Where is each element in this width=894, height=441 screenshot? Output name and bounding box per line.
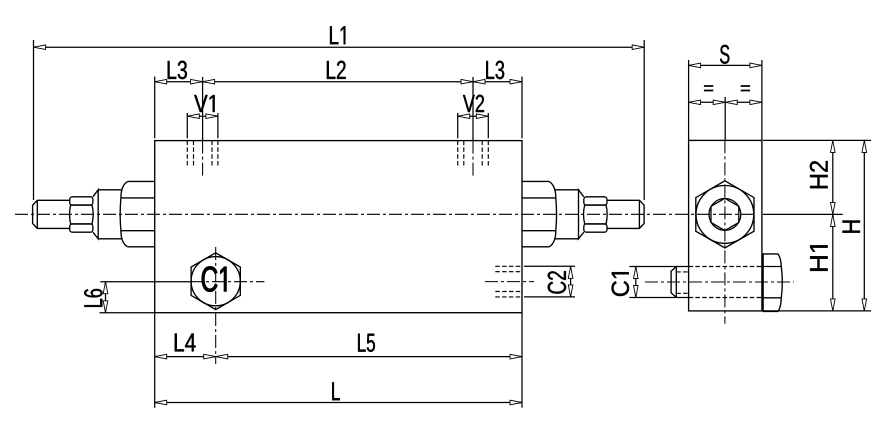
right stem xyxy=(607,200,644,228)
arrow L4 right xyxy=(204,354,216,359)
arrow L3a left xyxy=(155,79,167,84)
arrow V2 right xyxy=(476,114,488,119)
dimension S line xyxy=(689,64,762,66)
side view C1 plug head xyxy=(671,267,676,298)
arrow H2 up xyxy=(831,140,836,152)
label L3 right xyxy=(486,61,504,79)
dimension C1 line xyxy=(635,267,637,298)
dimension H/H2/H1 extension lines xyxy=(763,140,871,311)
arrow eq2 right xyxy=(750,100,762,105)
arrow L1 right xyxy=(632,45,644,50)
side view C1 horizontal centerline xyxy=(645,281,794,283)
label equal left xyxy=(704,86,713,91)
arrow S left xyxy=(689,63,701,68)
arrow C2 down xyxy=(568,285,573,297)
label C1 port marking xyxy=(202,267,226,292)
port C1 horizontal centerline xyxy=(100,281,264,283)
label L xyxy=(332,382,339,400)
arrow L2 right xyxy=(461,79,473,84)
dimension L3/L2 extension lines at block corners xyxy=(155,77,522,139)
port C1 circle xyxy=(191,257,240,306)
arrow H2 down xyxy=(831,202,836,214)
arrow eq1 right xyxy=(713,100,725,105)
arrow H up xyxy=(862,140,867,152)
side view nut thread circle xyxy=(709,199,741,231)
arrow L3b right xyxy=(510,79,522,84)
label H1 xyxy=(810,245,828,271)
dimension L3 right line xyxy=(473,81,522,83)
port V1 hidden hole lines xyxy=(187,141,218,168)
dimension equal-equal line xyxy=(689,101,762,103)
label L6 xyxy=(84,289,102,307)
left cartridge stem xyxy=(33,200,70,228)
dimension C2 extension lines xyxy=(524,266,575,297)
dimension L5 line xyxy=(216,356,522,358)
port C2 centerline xyxy=(485,281,534,283)
port C2 hidden lines xyxy=(495,266,522,297)
arrow L5 left xyxy=(216,354,228,359)
main horizontal centerline front view xyxy=(15,213,756,215)
port V2 axis line xyxy=(472,77,474,141)
arrow C2 up xyxy=(568,266,573,278)
right cylinder section xyxy=(554,190,578,239)
arrow L3b left xyxy=(473,79,485,84)
arrow L2 left xyxy=(203,79,215,84)
port V2 hidden hole lines xyxy=(458,141,489,168)
arrow V2 left xyxy=(458,114,470,119)
arrow L6 up xyxy=(103,282,108,294)
dimension S extension lines xyxy=(689,60,762,140)
right large hex xyxy=(522,181,549,246)
label V2 xyxy=(463,95,484,112)
arrow C1 down xyxy=(634,286,639,298)
left large hex xyxy=(120,181,155,246)
label H xyxy=(843,221,861,233)
arrow L5 right xyxy=(510,354,522,359)
right flange washer xyxy=(579,190,584,239)
arrow L1 left xyxy=(34,45,46,50)
arrow eq2 left xyxy=(725,100,737,105)
label V1 xyxy=(194,95,214,112)
dimension H1 line xyxy=(832,214,834,311)
dimension L1 line xyxy=(34,46,645,48)
dimension L4 line xyxy=(155,356,216,358)
label C1 dimension xyxy=(612,272,629,296)
port V1 extension lines xyxy=(187,113,218,138)
block bottom edge left extension for L6 xyxy=(100,312,155,314)
side view C1 plug top and bottom lines xyxy=(629,267,688,298)
port C1 vertical centerline xyxy=(215,247,217,364)
side view nut inner hex socket xyxy=(711,198,739,230)
arrow L left xyxy=(155,400,167,405)
dimension C2 line xyxy=(570,266,572,297)
label C2 xyxy=(548,271,566,293)
arrow H down xyxy=(862,299,867,311)
port V2 centerline into block xyxy=(472,141,474,177)
port V1 axis line xyxy=(202,77,204,141)
side view C1 plug thread hidden lines xyxy=(676,272,688,293)
port V2 extension lines xyxy=(458,113,489,138)
arrow V1 left xyxy=(187,114,199,119)
label L5 xyxy=(358,334,375,352)
side view C2 plug head xyxy=(763,254,783,312)
dimension H2 line xyxy=(832,140,834,214)
dimension L1 extension lines xyxy=(34,40,645,200)
dimension L2 line xyxy=(203,81,473,83)
dimension L3 left line xyxy=(155,81,203,83)
side view nut outer hexagon xyxy=(696,181,754,248)
label L3 left xyxy=(168,61,187,79)
arrow L3a right xyxy=(191,79,203,84)
label L1 xyxy=(330,26,345,44)
side view nut chamfer circle xyxy=(696,186,754,244)
arrow H1 up xyxy=(831,214,836,226)
port V1 centerline into block xyxy=(202,141,204,177)
label S xyxy=(720,45,729,64)
label L4 xyxy=(175,334,196,352)
arrow V1 right xyxy=(206,114,218,119)
side view vertical centerline xyxy=(724,140,726,323)
left cylinder section xyxy=(98,190,122,239)
arrow L4 left xyxy=(155,354,167,359)
label equal right xyxy=(741,86,750,91)
right cartridge fitting (mirror of left) xyxy=(522,181,644,246)
dimension V2 line xyxy=(458,115,489,117)
valve body block (front view) xyxy=(155,141,522,313)
arrow H1 down xyxy=(831,299,836,311)
dimension L line xyxy=(155,402,522,404)
arrow L6 down xyxy=(103,301,108,313)
arrow eq1 left xyxy=(689,100,701,105)
side view C1 hole hidden lines xyxy=(689,267,762,298)
side view block xyxy=(689,140,762,311)
dimension H line xyxy=(863,140,865,311)
dimension L4/L5/L extension lines xyxy=(155,313,522,408)
label L2 xyxy=(327,61,346,79)
dimension L6 line xyxy=(105,282,107,313)
arrow S right xyxy=(750,63,762,68)
right small hex locknut xyxy=(584,197,607,205)
port C1 hexagon xyxy=(191,253,240,310)
arrow C1 up xyxy=(634,267,639,279)
arrow L right xyxy=(510,400,522,405)
dimension V1 line xyxy=(187,115,218,117)
left flange washer xyxy=(93,190,98,239)
left small hex locknut xyxy=(70,197,94,232)
label H2 xyxy=(810,161,828,188)
